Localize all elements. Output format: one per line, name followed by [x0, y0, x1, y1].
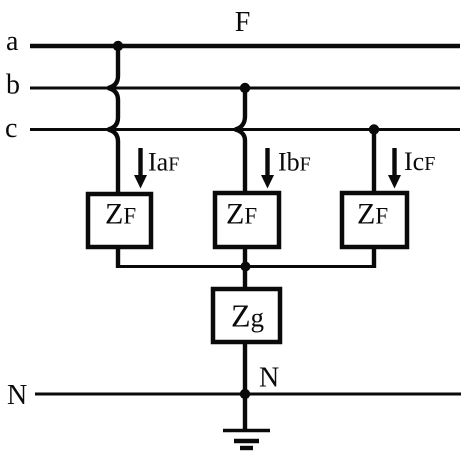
ground symbol [223, 431, 270, 449]
current arrow IcF [388, 148, 401, 189]
svg-text:N: N [259, 363, 279, 394]
impedance box ZF phase a [88, 194, 151, 247]
wire phase a [30, 44, 460, 48]
neutral wire N [35, 393, 461, 396]
wire branch b (with crossover hop at c) [235, 88, 245, 193]
junction on phase a [113, 41, 123, 51]
svg-text:a: a [6, 26, 19, 57]
junction on phase b [240, 83, 250, 93]
svg-text:b: b [6, 70, 20, 101]
wire phase c [30, 128, 460, 131]
wire box a to bus [116, 247, 120, 268]
svg-text:N: N [7, 380, 27, 411]
bus wire [116, 265, 376, 268]
wire Zg to neutral [243, 342, 247, 394]
svg-text:c: c [5, 113, 17, 144]
wire phase b [30, 87, 460, 90]
junction bus node [241, 262, 251, 272]
wire branch c [372, 130, 376, 194]
junction neutral node [240, 389, 250, 399]
wire branch a (with crossover hops at b and c) [108, 46, 118, 194]
svg-text:Zg: Zg [231, 298, 264, 334]
current arrow IbF [261, 148, 274, 189]
impedance box ZF phase b [215, 193, 279, 247]
current arrow IaF [134, 148, 147, 189]
wire box b to Zg [243, 247, 247, 289]
impedance box ZF phase c [342, 193, 407, 247]
svg-text:F: F [235, 7, 251, 38]
wire box c to bus [372, 247, 376, 268]
impedance box Zg [213, 289, 280, 342]
wire to ground [243, 394, 247, 430]
junction on phase c [369, 124, 379, 134]
